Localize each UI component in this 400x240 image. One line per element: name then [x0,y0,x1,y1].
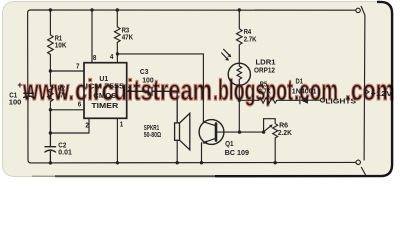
svg-text:+: + [17,80,22,90]
svg-text:4: 4 [110,54,114,61]
svg-text:2.2K: 2.2K [278,130,292,137]
svg-text:R5: R5 [260,82,268,89]
svg-text:2.7K: 2.7K [244,36,257,43]
svg-text:Q1: Q1 [225,141,233,148]
svg-text:6: 6 [78,101,82,108]
svg-text:7: 7 [76,64,80,71]
svg-text:D1: D1 [296,79,304,86]
svg-text:TIMER: TIMER [91,103,118,110]
svg-text:R4: R4 [244,29,252,36]
svg-text:2.7K: 2.7K [259,89,271,96]
svg-text:U1: U1 [99,76,108,83]
svg-text:100: 100 [9,100,22,107]
svg-text:100: 100 [142,78,154,85]
svg-text:LDR1: LDR1 [256,60,276,67]
svg-text:ICM 7555: ICM 7555 [86,84,124,91]
svg-text:1N4001: 1N4001 [292,88,317,95]
svg-text:8: 8 [93,55,97,62]
svg-text:C1: C1 [9,93,17,100]
svg-text:SPKR1: SPKR1 [144,125,159,132]
svg-text:BC 109: BC 109 [225,150,250,157]
svg-text:C3: C3 [140,69,149,76]
svg-text:47K: 47K [58,92,68,99]
svg-text:CMOS: CMOS [93,93,116,100]
svg-text:50-80Ω: 50-80Ω [144,132,162,139]
svg-text:2: 2 [85,123,89,130]
svg-text:0.01: 0.01 [58,150,72,157]
svg-text:+12V: +12V [371,91,393,98]
svg-text:3: 3 [128,87,132,94]
svg-text:R2: R2 [58,85,66,92]
svg-text:1: 1 [120,121,124,128]
svg-text:.blogspot: .blogspot [213,74,293,107]
svg-text:R6: R6 [279,123,288,130]
svg-text:47K: 47K [122,35,134,42]
svg-text:10K: 10K [55,42,67,49]
svg-text:ORP12: ORP12 [254,67,275,74]
svg-text:LIGHTS: LIGHTS [325,98,356,105]
svg-text:R3: R3 [122,28,130,35]
